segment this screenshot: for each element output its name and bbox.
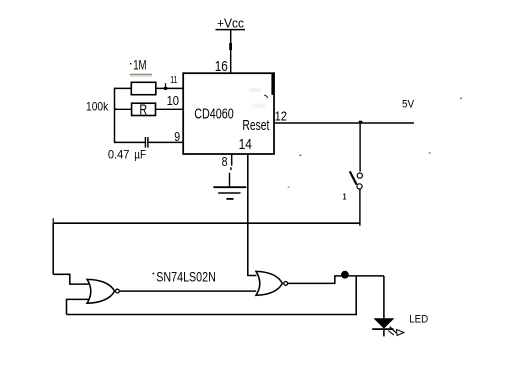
faint smudge 1 xyxy=(249,89,261,93)
svg-text:+Vcc: +Vcc xyxy=(217,16,244,31)
LED arrows xyxy=(388,327,404,336)
squiggle artifact inside IC xyxy=(264,95,268,98)
wire long horizontal net xyxy=(53,222,360,224)
junction dot pin 11 node xyxy=(164,83,167,90)
junction nub at switch tap xyxy=(359,121,363,123)
wire left node to R1 xyxy=(114,87,131,89)
noise speck 2 xyxy=(429,152,431,153)
wire gate1 out to gate2 in xyxy=(120,290,257,292)
wire R1 to pin 11 xyxy=(156,87,183,89)
svg-text:9: 9 xyxy=(174,129,180,144)
wire Vcc to pin 16 xyxy=(230,30,232,74)
wire gate2 output xyxy=(288,276,384,284)
IC U1 CD4060 body xyxy=(183,73,274,154)
svg-text:100k: 100k xyxy=(86,100,109,114)
faint smudge 2 xyxy=(252,104,265,108)
svg-text:8: 8 xyxy=(222,154,228,169)
svg-text:Reset: Reset xyxy=(242,117,270,134)
wire left vertical down to gate 1 xyxy=(52,223,54,274)
svg-text:R: R xyxy=(139,103,147,119)
junction blob on Vcc wire xyxy=(229,43,232,50)
svg-text:LED: LED xyxy=(409,313,428,325)
svg-text:SN74LS02N: SN74LS02N xyxy=(156,270,216,285)
wire step into gate 1 input A xyxy=(53,274,89,284)
wire left node to R2 xyxy=(115,108,132,110)
noise speck 4 xyxy=(288,187,290,188)
svg-text:14: 14 xyxy=(239,137,252,153)
svg-text:12: 12 xyxy=(275,108,287,123)
noise speck 1 xyxy=(460,98,462,99)
switch S1 xyxy=(350,171,363,189)
NOR gate U2B xyxy=(256,271,288,295)
highlight underline under 1M xyxy=(130,74,152,76)
wire down to LED D1 xyxy=(383,276,385,318)
wire gate 1 input B xyxy=(67,299,90,314)
wire switch to feedback rail xyxy=(359,189,361,226)
wire bottom feedback net xyxy=(67,276,357,315)
capacitor C1 plates xyxy=(145,137,148,148)
wire left node to capacitor xyxy=(114,141,145,143)
svg-text:11: 11 xyxy=(170,75,177,86)
ground xyxy=(213,173,246,199)
svg-text:0.47: 0.47 xyxy=(108,148,130,162)
wire rail down to switch xyxy=(359,123,361,172)
wire capacitor to pin 9 xyxy=(148,141,183,143)
SN74LS02N label xyxy=(153,270,216,285)
NOR gate U2A xyxy=(87,279,119,303)
stub tick xyxy=(230,167,232,170)
junction wedge left node xyxy=(114,108,117,111)
power +Vcc label xyxy=(216,16,246,31)
junction dot feedback node xyxy=(341,271,349,279)
svg-text:5V: 5V xyxy=(402,99,415,111)
wire pin 14 down to gate 2 input A xyxy=(248,154,257,276)
svg-text:1M: 1M xyxy=(133,57,146,72)
wire left vertical bus xyxy=(114,88,116,143)
svg-text:10: 10 xyxy=(167,93,179,108)
svg-text:CD4060: CD4060 xyxy=(194,106,234,123)
noise speck 3 xyxy=(300,155,302,156)
wire pin 8 stub xyxy=(231,154,233,166)
corner tick xyxy=(52,218,54,223)
resistor R1 1M label xyxy=(130,57,147,72)
LED D1 xyxy=(372,318,394,336)
IC right edge thick segment xyxy=(271,73,274,95)
resistor R1 1M body xyxy=(131,82,156,94)
wire pin 12 to 5V rail xyxy=(275,122,414,124)
resistor R2 R body xyxy=(132,103,156,115)
svg-text:µF: µF xyxy=(134,148,146,162)
svg-text:1: 1 xyxy=(343,191,347,201)
wire R2 to pin 10 xyxy=(156,108,184,110)
